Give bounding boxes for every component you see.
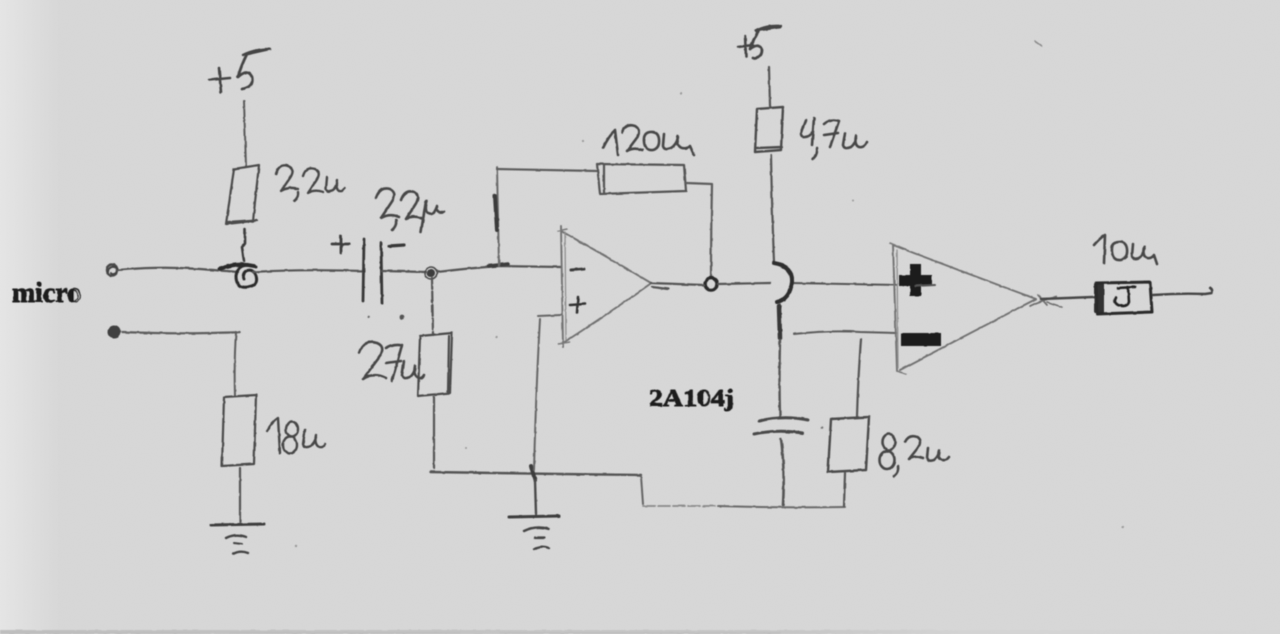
input terminal T2 xyxy=(108,326,121,339)
capacitor C2 xyxy=(759,418,808,421)
wire hop to op-amp U2 xyxy=(791,283,896,285)
output node circle U1 xyxy=(705,278,717,290)
label 18k xyxy=(267,418,325,454)
label 120k xyxy=(603,125,694,155)
wire C1 to node B xyxy=(382,271,426,272)
wire R4.7k down to hop xyxy=(771,155,774,262)
U2 big plus xyxy=(899,264,932,296)
resistor 4.7k xyxy=(755,107,783,152)
label 8,2k xyxy=(880,434,950,476)
ground G1 xyxy=(509,516,559,517)
bottom rail to right section xyxy=(643,505,718,507)
U1 plus xyxy=(570,297,585,313)
capacitor C1 plates xyxy=(363,239,364,301)
wire 8.2k down to bottom rail xyxy=(844,473,845,506)
wire ground stub xyxy=(535,480,536,514)
wire R2.2k to node A xyxy=(242,229,245,261)
resistor R out xyxy=(1094,283,1104,313)
wire R out to output xyxy=(1153,288,1212,295)
op-amp U2 xyxy=(893,245,1036,371)
label +5 (right) xyxy=(738,36,753,57)
label 4,7k xyxy=(801,118,867,159)
node B (junction dot) xyxy=(427,269,435,277)
capacitor C1 minus mark xyxy=(389,245,404,246)
feedback top wire xyxy=(497,169,597,171)
resistor 18k xyxy=(222,395,256,466)
resistor 8.2k xyxy=(828,417,869,472)
wire T1 to node A xyxy=(118,268,238,272)
label 2,2u xyxy=(376,188,444,232)
op-amp U1 xyxy=(561,226,651,347)
junction blob feedback xyxy=(489,264,508,266)
wire R27k down to ground rail xyxy=(433,397,435,468)
wire hop continue down dark xyxy=(779,306,780,338)
node input terminal T1 xyxy=(107,265,118,276)
feedback wire up xyxy=(497,167,499,266)
wire +5 to R4.7k xyxy=(769,67,770,106)
wire 8.2k top to minus wire xyxy=(857,339,861,416)
label 2,2k xyxy=(276,165,345,201)
resistor 2.2k xyxy=(226,165,259,224)
wire U2 out to R out xyxy=(1041,297,1093,299)
label +5 (left) xyxy=(209,68,230,92)
wire node B down to R 27k xyxy=(432,278,433,335)
U1 + input wire xyxy=(538,315,561,316)
U2 output arrow xyxy=(1030,295,1056,306)
wire down to capacitor C2 xyxy=(778,340,781,416)
resistor 120k xyxy=(597,164,686,194)
wire corner down to R18k xyxy=(235,333,236,396)
wire node A to capacitor C1 xyxy=(253,270,364,272)
resistor 27k xyxy=(418,333,452,396)
ground G2 xyxy=(211,524,264,525)
wire +5 to R 2.2k xyxy=(244,101,246,167)
wire hop (crossing bump) xyxy=(774,263,792,302)
ground rail horizontal xyxy=(430,472,641,475)
label 27k xyxy=(359,342,424,381)
wire U1 tip to node xyxy=(651,283,704,289)
U2 big minus xyxy=(901,333,941,346)
U1 minus xyxy=(571,269,584,270)
svg-text:2A104j: 2A104j xyxy=(649,386,734,412)
wire node B to op-amp U1 xyxy=(437,266,561,272)
wire R18k to ground G2 xyxy=(239,468,241,522)
label 1ok xyxy=(1094,235,1157,264)
R out J mark xyxy=(1115,287,1135,306)
capacitor C1 plus mark xyxy=(332,236,349,253)
wire 120k to output node xyxy=(686,183,712,277)
wire ground rail corner down right xyxy=(641,476,643,504)
node A (spiral junction on wire) xyxy=(220,265,254,269)
wire node to hop xyxy=(718,283,770,284)
wire to U2 minus input xyxy=(794,331,896,334)
wire T2 to corner xyxy=(122,332,240,333)
wire C2 down to bottom rail xyxy=(781,439,784,505)
junction at opamp+ wire xyxy=(531,466,535,480)
